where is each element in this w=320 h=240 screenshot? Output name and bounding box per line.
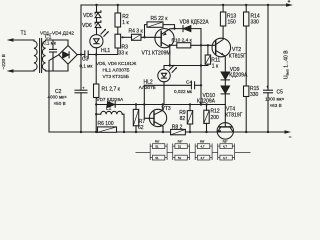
svg-text:33 к: 33 к	[119, 51, 129, 57]
LED HL1	[90, 35, 103, 48]
svg-text:R12: R12	[211, 109, 220, 115]
rail mid	[200, 29, 202, 105]
svg-text:330: 330	[250, 92, 259, 98]
svg-text:R8'': R8''	[223, 140, 228, 144]
diode VD10	[221, 86, 229, 93]
inset group 1	[149, 144, 151, 161]
svg-text:КТ819Г: КТ819Г	[225, 113, 242, 119]
junction base wire / R5	[143, 36, 145, 38]
LED HL2	[158, 69, 170, 81]
long wire mid	[96, 104, 225, 106]
junction rail / VT2 base wire	[200, 44, 202, 46]
junction VT1 collector / HL2 wire	[169, 64, 171, 66]
junction plus rail / C2	[80, 53, 82, 55]
svg-text:1 к: 1 к	[212, 63, 219, 69]
resistor R1	[95, 55, 97, 85]
junction top bus / R2	[117, 4, 119, 6]
junction top bus / R14	[245, 4, 247, 6]
inset tiny labels	[155, 140, 228, 160]
svg-text:L1: L1	[106, 105, 112, 111]
minus terminal mark	[289, 136, 292, 138]
svg-text:×50 В: ×50 В	[54, 101, 66, 106]
capacitor C3	[84, 51, 86, 58]
wire bottom bus	[49, 131, 285, 133]
HL1 arrows	[101, 29, 105, 34]
svg-text:51: 51	[155, 145, 159, 149]
svg-text:4,7: 4,7	[223, 145, 227, 149]
svg-text:200: 200	[211, 115, 220, 121]
junction plus rail / HL1-R1	[95, 53, 97, 55]
wire top bus	[81, 4, 288, 6]
junction top bus / C5	[267, 4, 269, 6]
svg-text:51: 51	[155, 156, 159, 160]
resistor R6	[98, 127, 117, 132]
svg-text:150: 150	[228, 19, 237, 25]
HL2 arrows	[169, 65, 173, 70]
wire inset 3-4	[212, 152, 218, 154]
svg-text:КД209А: КД209А	[197, 98, 216, 104]
svg-text:R14: R14	[251, 13, 260, 19]
wire bridge minus	[49, 55, 59, 132]
resistor R10	[170, 44, 177, 46]
junction mid wire / R12	[205, 103, 207, 105]
inset resistor chain	[136, 144, 251, 161]
junction bottom bus / node A	[95, 131, 97, 133]
svg-text:VT3: VT3	[162, 106, 171, 112]
svg-text:VD7 КД226А: VD7 КД226А	[97, 97, 125, 102]
junction top bus / VD5 chain	[95, 4, 97, 6]
wire inset 2-3	[190, 152, 196, 154]
wire inset 1-2	[167, 152, 173, 154]
wire secondary bottom	[46, 65, 69, 72]
transistor VT3	[144, 105, 154, 119]
svg-text:R5 22 к: R5 22 к	[151, 16, 169, 22]
junction mid wire / R9	[189, 103, 191, 105]
inductor L1	[96, 113, 101, 115]
junction top bus / R13	[222, 4, 224, 6]
svg-text:R2: R2	[122, 14, 129, 20]
svg-text:R6'': R6''	[178, 140, 183, 144]
svg-text:VD5: VD5	[83, 13, 93, 19]
diode VD8	[175, 28, 202, 30]
resistor R15	[244, 86, 249, 97]
svg-text:R10 2,4 к: R10 2,4 к	[172, 38, 193, 44]
svg-text:HL1 АЛ307Б: HL1 АЛ307Б	[103, 68, 130, 73]
svg-text:1000 мк×: 1000 мк×	[265, 97, 285, 102]
arrow output plus	[286, 3, 293, 7]
svg-text:4,7: 4,7	[223, 156, 227, 160]
resistor R9	[189, 105, 191, 111]
wire AC input top	[12, 39, 34, 41]
inset group 3	[194, 144, 196, 161]
svg-text:4,7: 4,7	[201, 145, 205, 149]
resistor R8	[171, 129, 186, 134]
svg-text:R6': R6'	[155, 140, 160, 144]
resistor R11	[207, 45, 209, 55]
svg-text:C4: C4	[186, 79, 192, 85]
svg-text:КТ815Г: КТ815Г	[229, 54, 246, 60]
zener chain wire	[96, 5, 98, 12]
svg-text:0,1 мк: 0,1 мк	[80, 63, 94, 68]
wire AC input bottom	[12, 70, 34, 72]
transistor VT1	[155, 29, 174, 48]
svg-text:R4 3 к: R4 3 к	[129, 29, 144, 35]
svg-text:62: 62	[138, 125, 144, 131]
transformer T1 core	[39, 39, 41, 73]
resistor R4	[132, 34, 142, 40]
svg-text:HL1: HL1	[101, 48, 110, 54]
svg-text:~220 В: ~220 В	[1, 54, 7, 69]
transformer T1 secondary	[42, 41, 45, 70]
svg-text:+: +	[266, 85, 269, 90]
arrow AC top	[7, 38, 14, 41]
junction bottom bus / C2	[80, 131, 82, 133]
svg-text:VT3 КТ315Б: VT3 КТ315Б	[103, 74, 129, 79]
svg-text:VT4: VT4	[226, 106, 235, 112]
svg-text:R8': R8'	[200, 140, 205, 144]
svg-text:VT2: VT2	[232, 47, 241, 53]
resistor R2	[117, 5, 119, 13]
svg-text:C5: C5	[277, 89, 284, 95]
svg-text:×63 В: ×63 В	[270, 103, 282, 108]
svg-text:330: 330	[251, 19, 260, 25]
svg-text:82: 82	[180, 116, 186, 122]
svg-text:R13: R13	[227, 13, 236, 19]
resistor R5	[145, 25, 147, 38]
inset group 2	[172, 144, 174, 161]
junction rail / C4	[200, 84, 202, 86]
svg-text:VT1 КТ209М: VT1 КТ209М	[142, 50, 171, 56]
capacitor C2	[80, 5, 82, 90]
junction bottom bus / R15	[245, 131, 247, 133]
transistor VT4	[217, 123, 233, 139]
resistor R13	[222, 5, 224, 12]
svg-text:1 к: 1 к	[122, 20, 129, 26]
svg-text:АЛ307Б: АЛ307Б	[139, 85, 156, 90]
svg-text:R3: R3	[122, 45, 129, 51]
wire secondary top	[46, 40, 69, 46]
zener VD5	[95, 13, 101, 18]
wire HL2 top	[164, 66, 208, 70]
junction bottom bus / C5	[267, 131, 269, 133]
junction bottom bus / R7	[135, 131, 137, 133]
junction VT1 emitter / R5 / VD8	[173, 27, 175, 29]
svg-text:51: 51	[178, 145, 182, 149]
diode VD7	[108, 102, 115, 108]
arrow AC bottom	[7, 69, 14, 72]
junction R10 wire / R11	[207, 44, 209, 46]
svg-text:+: +	[82, 85, 85, 90]
transistor VT2	[212, 38, 231, 57]
zener VD6	[95, 23, 101, 28]
junction bottom bus / R12	[205, 131, 207, 133]
svg-text:Uвых 1...40 В: Uвых 1...40 В	[284, 50, 290, 79]
output arrows	[7, 3, 294, 134]
junction mid wire / C4 branch / VT3 base	[143, 103, 145, 105]
junction rail / HL2 wire	[200, 64, 202, 66]
svg-text:R8 2: R8 2	[172, 124, 183, 130]
junction bottom bus / L1	[123, 131, 125, 133]
svg-text:51: 51	[178, 156, 182, 160]
wire inset right lead	[235, 152, 251, 154]
junction VT1 collector / R10	[169, 44, 171, 46]
arrow output minus	[285, 130, 292, 133]
plus terminal mark	[288, 0, 291, 2]
svg-text:4000 мк×: 4000 мк×	[48, 95, 68, 100]
diode bridge VD1-VD4	[59, 46, 78, 65]
resistor R7	[135, 105, 137, 110]
capacitor C5	[267, 5, 269, 90]
diode VD9	[221, 72, 229, 79]
junction mid wire / HL2-VT3 collector	[162, 103, 164, 105]
junction bottom bus / R9	[189, 131, 191, 133]
R3 wiper arrow	[122, 36, 131, 38]
junction node A / VD7 wire	[95, 103, 97, 105]
wire bridge plus to node	[77, 54, 84, 56]
svg-text:4,7: 4,7	[201, 156, 205, 160]
svg-text:R6 100: R6 100	[98, 121, 114, 127]
svg-text:КД209А: КД209А	[229, 73, 248, 79]
svg-text:VD6: VD6	[82, 23, 92, 29]
transformer T1 primary	[34, 41, 37, 70]
svg-text:VD5, VD6 КС191Ж: VD5, VD6 КС191Ж	[96, 61, 137, 66]
capacitor C1	[52, 40, 54, 49]
svg-text:C3: C3	[82, 57, 89, 63]
capacitor C4	[144, 84, 191, 86]
svg-text:VD8 КД522А: VD8 КД522А	[180, 19, 210, 25]
inset group 4	[217, 144, 219, 161]
svg-text:0,1 мк: 0,1 мк	[43, 40, 57, 45]
svg-text:0,022 мк: 0,022 мк	[174, 89, 193, 94]
resistor R3 potentiometer	[115, 34, 121, 48]
junction mid wire / R7	[135, 103, 137, 105]
resistor R12	[206, 105, 208, 111]
junction bottom bus / VT3 emitter	[162, 131, 164, 133]
junction mid wire / rail	[200, 103, 202, 105]
junction node A / L1	[95, 113, 97, 115]
wire inset left lead	[136, 152, 151, 154]
svg-text:R1 2,7 к: R1 2,7 к	[102, 86, 121, 92]
resistor R14	[245, 5, 247, 12]
svg-text:T1: T1	[21, 31, 27, 37]
